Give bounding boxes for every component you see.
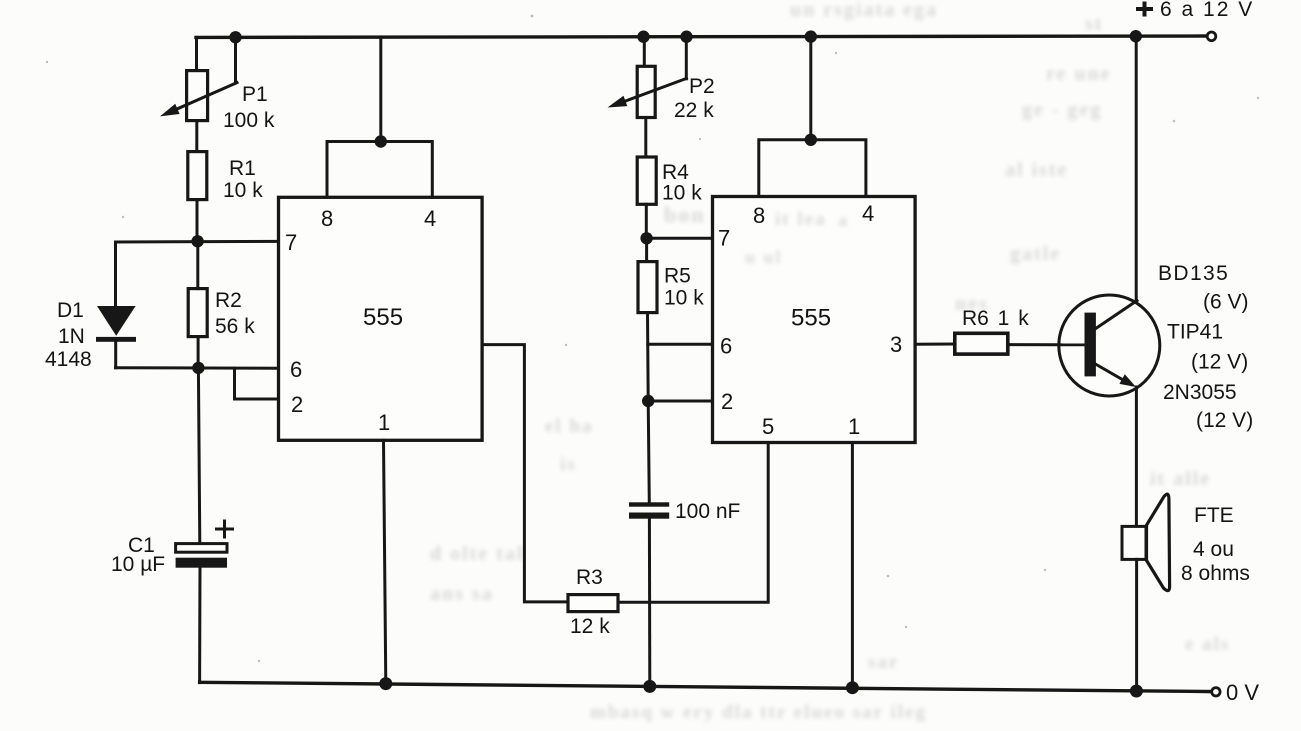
- svg-text:el ha: el ha: [545, 416, 594, 437]
- wire collector to +V rail: [1135, 36, 1138, 301]
- svg-text:4 ou: 4 ou: [1193, 538, 1234, 561]
- node P1 wiper / +V rail: [229, 31, 241, 43]
- svg-text:e als: e als: [1185, 634, 1230, 655]
- wire R4 to node7b: [645, 204, 648, 238]
- wire 0V bottom rail: [200, 682, 1215, 691]
- wire P1 to R1: [195, 121, 198, 152]
- resistor R5 body: [638, 262, 657, 313]
- svg-text:4: 4: [862, 201, 874, 226]
- node pin7b junction: [640, 232, 652, 244]
- node pin2b junction: [642, 395, 654, 407]
- svg-text:FTE: FTE: [1194, 504, 1234, 527]
- svg-text:1: 1: [378, 410, 390, 435]
- wire pin 2 jog: [235, 368, 279, 399]
- wire R3 to pin5 b: [618, 443, 768, 603]
- wire +V top rail: [196, 36, 1207, 37]
- wire pin 6 line b: [648, 343, 713, 346]
- svg-text:1: 1: [848, 414, 860, 439]
- svg-text:(12 V): (12 V): [1196, 409, 1253, 432]
- node speaker / 0V rail: [1130, 685, 1143, 698]
- svg-text:2: 2: [291, 392, 303, 417]
- svg-text:7: 7: [718, 226, 730, 251]
- wire pin 2 line b: [648, 400, 712, 403]
- svg-text:R6 1 k: R6 1 k: [962, 307, 1029, 330]
- wire R2 to node6: [197, 337, 200, 368]
- node P2 wiper / +V rail: [680, 31, 692, 43]
- wire pin 7 line b: [647, 237, 713, 240]
- node pin1b / 0V rail: [846, 681, 859, 694]
- node bridge a: [375, 135, 387, 147]
- diode D1: [97, 306, 136, 336]
- terminal 0 V: [1212, 688, 1220, 696]
- svg-text:R5: R5: [664, 265, 691, 288]
- svg-text:8: 8: [753, 203, 765, 228]
- svg-text:56 k: 56 k: [215, 315, 255, 338]
- capacitor 100 nF bottom plate: [629, 513, 669, 519]
- svg-text:1N: 1N: [58, 325, 85, 348]
- svg-text:10 k: 10 k: [223, 179, 263, 202]
- transistor Q1 collector: [1094, 301, 1138, 330]
- node pin1a / 0V rail: [379, 677, 392, 690]
- resistor R4 body: [637, 157, 656, 204]
- svg-text:555: 555: [363, 304, 403, 331]
- svg-text:10 k: 10 k: [662, 182, 702, 205]
- svg-text:6: 6: [720, 334, 732, 359]
- resistor R1 body: [188, 152, 207, 200]
- wire R6 to base: [1008, 343, 1085, 346]
- wire node6 to C1: [198, 368, 199, 544]
- svg-text:P2: P2: [689, 75, 715, 98]
- wire node7b to R5: [645, 238, 648, 261]
- wire node7 to R2: [196, 241, 199, 288]
- transistor Q1 emitter: [1095, 364, 1132, 385]
- svg-text:4: 4: [424, 206, 436, 231]
- op-amp U2 555 box: [713, 197, 916, 443]
- transistor Q1 circle: [1059, 295, 1160, 396]
- wire 555a pin1 to rail: [384, 440, 386, 683]
- svg-text:is: is: [560, 454, 577, 475]
- wire P2 wiper to rail: [685, 37, 688, 79]
- svg-text:BD135: BD135: [1158, 262, 1229, 285]
- svg-text:10 µF: 10 µF: [111, 553, 165, 576]
- svg-text:6 a 12 V: 6 a 12 V: [1160, 0, 1254, 21]
- svg-text:100 k: 100 k: [223, 109, 275, 132]
- node P2 / +V rail: [637, 31, 649, 43]
- potentiometer P1 wiper arrow: [172, 83, 237, 112]
- speaker FTE cone: [1147, 494, 1170, 591]
- svg-text:5: 5: [762, 414, 774, 439]
- svg-text:gatle: gatle: [1010, 243, 1061, 265]
- svg-text:ge - geg: ge - geg: [1022, 99, 1102, 121]
- wire P2 to R4: [644, 118, 647, 158]
- svg-text:R1: R1: [229, 157, 256, 180]
- node collector / +V rail: [1130, 30, 1142, 42]
- wire node2b to cap: [648, 401, 649, 503]
- wire R1 to node 7: [196, 200, 199, 242]
- wire R5 down to pin2 node: [646, 313, 650, 401]
- svg-text:sar: sar: [868, 652, 899, 673]
- svg-text:un rsgiata ega: un rsgiata ega: [790, 0, 938, 21]
- wire pin 7 line: [116, 240, 279, 244]
- capacitor C1 top plate: [176, 544, 227, 553]
- wire 555a supply: [379, 37, 382, 142]
- svg-text:R3: R3: [576, 566, 603, 589]
- svg-text:re une: re une: [1046, 63, 1112, 85]
- svg-text:6: 6: [290, 357, 302, 382]
- svg-text:(6 V): (6 V): [1203, 291, 1249, 314]
- svg-text:0 V: 0 V: [1226, 680, 1259, 705]
- svg-text:8 ohms: 8 ohms: [1181, 562, 1250, 585]
- svg-text:100 nF: 100 nF: [675, 500, 740, 523]
- svg-text:it alle: it alle: [1150, 468, 1211, 490]
- node cap / 0V rail: [643, 680, 656, 693]
- svg-text:2N3055: 2N3055: [1163, 381, 1237, 404]
- potentiometer P2 body: [637, 66, 655, 117]
- wire pin 6 line: [116, 366, 279, 370]
- svg-text:(12 V): (12 V): [1191, 351, 1248, 374]
- svg-text:st: st: [1085, 13, 1103, 35]
- wire rail to P2: [643, 37, 646, 66]
- svg-text:a: a: [838, 210, 849, 230]
- resistor R2 body: [188, 289, 207, 337]
- capacitor C1 plus sign: [217, 521, 233, 537]
- svg-text:TIP41: TIP41: [1167, 321, 1223, 344]
- wire 555b supply: [809, 37, 812, 140]
- wire 555b pin1 to rail: [851, 443, 854, 688]
- svg-text:8: 8: [321, 206, 333, 231]
- wire 555a pins 8-4 bridge: [327, 142, 432, 198]
- node bridge b: [805, 134, 817, 146]
- svg-text:10 k: 10 k: [664, 287, 704, 310]
- capacitor 100 nF top plate: [629, 502, 669, 506]
- svg-text:P1: P1: [242, 83, 268, 106]
- node 555b supply / +V rail: [805, 30, 817, 42]
- svg-text:555: 555: [791, 305, 831, 332]
- node pin7 junction: [191, 235, 203, 247]
- wire D1 anode: [114, 242, 117, 306]
- wire emitter to speaker: [1135, 387, 1138, 526]
- node pin6 junction: [192, 362, 204, 374]
- wire rail to P1: [195, 37, 198, 70]
- op-amp U1 555 box: [279, 197, 483, 440]
- resistor R3 body: [568, 595, 618, 612]
- svg-text:4148: 4148: [45, 348, 92, 371]
- wire 555a pin3 to R3: [482, 345, 568, 602]
- svg-text:7: 7: [285, 230, 297, 255]
- resistor R6 body: [955, 333, 1008, 354]
- wire cap to 0V rail: [648, 519, 651, 687]
- capacitor C1 bottom plate: [176, 558, 227, 568]
- wire 555b pin3 to R6: [915, 343, 955, 346]
- terminal +6 a 12 V: [1207, 32, 1216, 41]
- svg-text:D1: D1: [57, 299, 84, 322]
- wire P1 wiper to rail: [234, 37, 237, 83]
- wire D1 cathode: [114, 342, 117, 368]
- svg-text:mbasq w ery dla ttr el: mbasq w ery dla ttr elueo sar ileg: [590, 702, 927, 723]
- potentiometer P1 body: [187, 71, 208, 121]
- svg-text:al iste: al iste: [1005, 159, 1068, 181]
- svg-text:12 k: 12 k: [570, 615, 610, 638]
- wire speaker to 0V rail: [1135, 559, 1138, 691]
- svg-text:2: 2: [721, 389, 733, 414]
- transistor Q1 base bar: [1085, 313, 1096, 377]
- wire C1 to 0V rail: [198, 568, 201, 683]
- svg-text:it lea: it lea: [775, 209, 827, 230]
- svg-text:R2: R2: [215, 289, 242, 312]
- svg-text:u ul: u ul: [745, 247, 783, 267]
- wire 555b pins 8-4 bridge: [759, 140, 866, 197]
- svg-text:d olte tal: d olte tal: [430, 543, 524, 565]
- svg-text:3: 3: [890, 332, 902, 357]
- potentiometer P2 wiper arrow: [618, 78, 687, 103]
- svg-text:ans sa: ans sa: [430, 583, 494, 605]
- speaker FTE box: [1122, 526, 1146, 559]
- svg-text:22 k: 22 k: [674, 99, 714, 122]
